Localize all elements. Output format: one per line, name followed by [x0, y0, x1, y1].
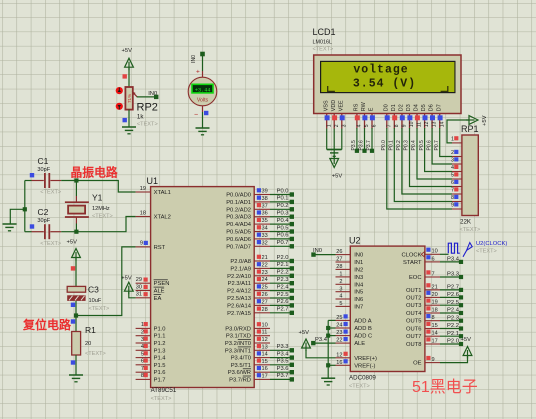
svg-text:4: 4	[141, 344, 144, 350]
wire net P2.1	[270, 262, 294, 270]
svg-text:VSS: VSS	[323, 100, 329, 111]
potentiometer RP2 body	[125, 87, 132, 110]
wire C1 left to common	[25, 180, 32, 182]
svg-text:+5V: +5V	[461, 337, 472, 343]
svg-text:P0.2: P0.2	[277, 203, 289, 209]
wire VSS-VEE join	[327, 149, 342, 151]
U2 pin 18 OUT4	[406, 306, 440, 317]
U1 pin 28 P2.7/A15	[227, 307, 270, 317]
svg-text:−: −	[194, 112, 198, 119]
RP2 wiper arrow	[132, 91, 136, 95]
U1 pin 14 P3.4/T0	[231, 351, 270, 361]
power +5V terminal RP1 (right arrow)	[466, 115, 488, 126]
U2 pin 2 IN4	[336, 279, 364, 288]
svg-text:5: 5	[451, 173, 454, 179]
LCD pin 3 VEE	[338, 100, 347, 128]
svg-text:IN7: IN7	[354, 304, 363, 310]
power +5V terminal VREF+	[299, 330, 311, 351]
svg-text:P2.1: P2.1	[277, 262, 289, 268]
svg-text:25: 25	[336, 315, 342, 321]
svg-text:OUT5: OUT5	[406, 319, 421, 325]
LCD pin 11 D4	[414, 104, 423, 128]
svg-text:8: 8	[432, 315, 435, 321]
svg-text:OUT3: OUT3	[406, 303, 421, 309]
U1 pin 34 P0.5/AD5	[226, 225, 270, 235]
RP1 pin 8	[451, 195, 462, 202]
svg-text:14: 14	[439, 121, 445, 127]
U1 pin 9 RST	[136, 241, 166, 251]
svg-text:P0.4: P0.4	[411, 140, 417, 151]
U2 pin 8 OUT5	[406, 314, 440, 325]
svg-text:3: 3	[341, 124, 347, 127]
svg-text:23: 23	[262, 270, 268, 276]
U2 pin 4 IN6	[336, 294, 364, 303]
svg-text:3: 3	[339, 286, 342, 292]
wire U2 OUT6 to net P2.2	[440, 323, 463, 331]
svg-text:26: 26	[262, 292, 268, 298]
svg-text:P0.1: P0.1	[389, 140, 395, 151]
wire LCD D1 net P0.1 to RP1 pin 8	[389, 128, 453, 202]
wire voltmeter top	[202, 56, 204, 71]
wire net P2.6	[270, 299, 294, 307]
wire U2 OUT7 to net P2.1	[440, 331, 463, 339]
U1 pin 15 P3.5/T1	[231, 359, 270, 369]
wire net P2.2	[270, 270, 294, 278]
svg-text:P0.1: P0.1	[277, 196, 289, 202]
svg-text:P2.6/A14: P2.6/A14	[227, 303, 252, 309]
svg-text:VDD: VDD	[331, 100, 337, 111]
U1 pin 23 P2.2/A10	[227, 270, 270, 280]
U2 pin 23 ADD C	[336, 330, 373, 340]
svg-text:P3.4: P3.4	[447, 256, 460, 262]
svg-text:21: 21	[432, 284, 438, 290]
power +5V terminal LCD (down arrow)	[330, 156, 343, 180]
svg-text:P2.1: P2.1	[447, 331, 459, 337]
voltmeter negative pin	[194, 106, 203, 119]
wire net P0.3	[270, 211, 294, 219]
voltmeter probe node IN0	[191, 52, 205, 63]
wire ADD C stub	[328, 335, 335, 337]
wire LCD D5 net P0.5 to RP1 pin 4	[419, 128, 452, 172]
svg-text:OUT4: OUT4	[406, 311, 422, 317]
svg-text:RW: RW	[361, 101, 367, 111]
svg-text:9: 9	[432, 357, 435, 363]
RP1 pin 9	[451, 202, 462, 209]
LCD pin 6 E	[369, 107, 378, 128]
U2 pin 21 OUT1	[406, 283, 440, 294]
svg-text:2: 2	[334, 124, 340, 127]
svg-text:OUT2: OUT2	[406, 295, 421, 301]
U2 pin 25 ADD A	[336, 314, 372, 324]
svg-text:U2: U2	[349, 236, 361, 246]
svg-text:11: 11	[262, 330, 268, 336]
wire R1 to ground	[75, 355, 77, 375]
LCD pin 4 RS	[354, 103, 363, 128]
U2 pin 16 VREF(-)	[336, 359, 376, 369]
svg-text:P1.1: P1.1	[154, 334, 166, 340]
svg-text:10: 10	[262, 322, 268, 328]
U2 part number label	[349, 375, 376, 390]
svg-text:15: 15	[262, 359, 268, 365]
svg-text:IN0: IN0	[191, 55, 197, 63]
svg-text:+5V: +5V	[299, 330, 310, 336]
svg-text:U2(CLOCK): U2(CLOCK)	[476, 241, 507, 247]
svg-text:P1.5: P1.5	[154, 363, 166, 369]
svg-text:ADD B: ADD B	[354, 326, 372, 332]
svg-text:P0.2/AD2: P0.2/AD2	[226, 207, 251, 213]
svg-text:P2.4: P2.4	[277, 284, 290, 290]
svg-text:P2.2: P2.2	[277, 270, 289, 276]
svg-text:Volts: Volts	[197, 98, 209, 104]
svg-text:VREF(+): VREF(+)	[354, 356, 377, 362]
svg-text:12MHz: 12MHz	[92, 206, 110, 212]
wire net P0.1	[270, 196, 294, 204]
U2 pin 5 IN7	[336, 301, 364, 310]
svg-text:P0.5: P0.5	[277, 225, 289, 231]
svg-text:<TEXT>: <TEXT>	[85, 351, 106, 357]
svg-text:IN3: IN3	[354, 275, 363, 281]
svg-text:P0.6: P0.6	[277, 233, 289, 239]
svg-text:6: 6	[141, 359, 144, 365]
U2 pin 15 OUT6	[406, 322, 440, 333]
svg-text:IN2: IN2	[354, 267, 363, 273]
svg-text:13: 13	[262, 344, 268, 350]
voltmeter positive pin	[196, 69, 203, 78]
svg-text:3: 3	[451, 158, 454, 164]
svg-text:1: 1	[141, 322, 144, 328]
svg-text:29: 29	[136, 277, 142, 283]
svg-text:8: 8	[141, 373, 144, 379]
svg-text:P2.7: P2.7	[277, 307, 289, 313]
svg-text:18: 18	[432, 307, 438, 313]
svg-text:P0.6: P0.6	[426, 140, 432, 151]
svg-text:<TEXT>: <TEXT>	[476, 249, 497, 255]
svg-text:P2.6: P2.6	[277, 299, 289, 305]
U1 pin 27 P2.6/A14	[227, 299, 270, 309]
svg-text:IN4: IN4	[354, 282, 364, 288]
U1 pin 2 P1.1	[136, 329, 166, 339]
svg-text:D4: D4	[414, 104, 420, 111]
svg-text:5: 5	[141, 351, 144, 357]
label RP2	[137, 101, 158, 127]
svg-text:P3.1/TXD: P3.1/TXD	[226, 334, 251, 340]
svg-text:+5V: +5V	[332, 174, 343, 180]
svg-text:1: 1	[451, 137, 454, 143]
svg-text:22: 22	[336, 338, 342, 344]
svg-text:P2.5: P2.5	[277, 292, 289, 298]
wire XTAL1 net	[61, 181, 135, 193]
junction capacitor common	[23, 207, 27, 211]
svg-text:ADC0809: ADC0809	[349, 375, 376, 382]
svg-text:12: 12	[336, 352, 342, 358]
RP1 value labels	[460, 219, 481, 234]
svg-text:39: 39	[262, 189, 268, 195]
svg-text:+5V: +5V	[121, 276, 132, 282]
RP1 pin 4	[451, 165, 462, 172]
svg-text:IN0: IN0	[354, 253, 363, 259]
U1 pin 31 EA	[136, 292, 162, 302]
logic state square below reset node	[71, 319, 75, 323]
svg-text:34: 34	[262, 226, 268, 232]
wire LCD D2 net P0.2 to RP1 pin 7	[396, 128, 452, 194]
ground LCD	[327, 149, 341, 151]
power +5V terminal reset	[67, 240, 81, 261]
wire net P2.4	[270, 284, 294, 292]
svg-text:C1: C1	[38, 156, 49, 166]
U1 pin 5 P1.4	[136, 351, 167, 361]
U1 pin 18 XTAL2	[136, 210, 171, 220]
wire LCD D0 net P0.0 to RP1 pin 9	[381, 128, 452, 209]
U2 pin 10 CLOCK	[402, 248, 440, 259]
junction ADD B	[326, 326, 330, 330]
resistor pack RP1 body	[462, 135, 478, 216]
RP1 pin 3	[451, 157, 462, 164]
svg-text:17: 17	[262, 373, 268, 379]
wire net P3.4	[270, 351, 294, 359]
svg-text:P0.3: P0.3	[404, 140, 410, 151]
RP2 increment button	[116, 87, 123, 94]
U1 pin 19 XTAL1	[136, 186, 171, 196]
svg-text:30pF: 30pF	[37, 218, 50, 224]
svg-text:R1: R1	[85, 325, 96, 335]
wire U2 OUT2 to net P2.6	[440, 292, 463, 300]
U1 pin 26 P2.5/A13	[227, 292, 270, 302]
svg-text:voltage: voltage	[353, 63, 408, 76]
svg-text:<TEXT>: <TEXT>	[151, 396, 172, 402]
U2 pin 1 IN3	[336, 272, 364, 281]
svg-text:18: 18	[140, 210, 146, 216]
power +5V terminal for RP2	[122, 48, 134, 70]
wire crystal top	[75, 181, 77, 197]
U2 pin 26 IN0	[336, 249, 364, 258]
svg-text:<TEXT>: <TEXT>	[89, 306, 110, 312]
svg-text:P3.4: P3.4	[277, 351, 290, 357]
wire reset node to RST pin	[76, 247, 136, 316]
svg-text:38: 38	[262, 196, 268, 202]
svg-text:3: 3	[141, 337, 144, 343]
wire ALE to net P3.4	[311, 337, 335, 345]
svg-text:31: 31	[136, 292, 142, 298]
svg-text:28: 28	[262, 307, 268, 313]
U1 pin 6 P1.5	[136, 358, 166, 368]
svg-text:30: 30	[136, 284, 142, 290]
U1 pin 10 P3.0/RXD	[225, 322, 270, 332]
wire U2 OUT4 to net P2.4	[440, 308, 463, 316]
svg-text:P2.5/A13: P2.5/A13	[227, 296, 251, 302]
U1 pin 1 P1.0	[136, 322, 166, 332]
wire net P0.2	[270, 203, 294, 211]
wire +5V to RP2 top	[128, 68, 130, 88]
svg-text:10: 10	[432, 249, 438, 255]
svg-text:START: START	[403, 260, 422, 266]
svg-text:LCD1: LCD1	[313, 27, 336, 37]
svg-text:P0.3/AD3: P0.3/AD3	[226, 215, 251, 221]
junction reset node	[74, 313, 78, 317]
svg-text:P0.4: P0.4	[277, 218, 290, 224]
svg-text:+5V: +5V	[122, 48, 133, 54]
wire net P3.6	[270, 366, 294, 374]
logic state square on RP2 bottom wire	[123, 118, 127, 122]
svg-text:P2.1/A9: P2.1/A9	[230, 266, 251, 272]
svg-text:P0.5/AD5: P0.5/AD5	[226, 230, 251, 236]
svg-text:P2.7/A15: P2.7/A15	[227, 311, 251, 317]
svg-text:12: 12	[262, 337, 268, 343]
svg-text:P3.4/T0: P3.4/T0	[231, 356, 251, 362]
svg-text:PSEN: PSEN	[154, 281, 170, 287]
U1 pin 21 P2.0/A8	[230, 255, 270, 265]
wire U2 START to net P3.4	[440, 256, 463, 264]
svg-text:P0.5: P0.5	[419, 140, 425, 151]
svg-text:<TEXT>: <TEXT>	[460, 227, 481, 233]
U2 pin 24 ADD B	[336, 322, 373, 332]
capacitor C1	[32, 156, 62, 196]
wire net P0.0	[270, 188, 294, 196]
crystal Y1	[65, 193, 113, 224]
svg-text:OE: OE	[413, 361, 422, 367]
svg-text:2: 2	[141, 330, 144, 336]
wire LCD D7 net P0.7 to RP1 pin 2	[434, 128, 452, 157]
svg-text:P2.0: P2.0	[277, 255, 289, 261]
svg-text:11: 11	[417, 122, 423, 127]
LCD pin 13 D6	[429, 104, 438, 128]
svg-text:P0.2: P0.2	[396, 140, 402, 151]
U1 pin 8 P1.7	[136, 373, 166, 383]
logic state square on reset top wire	[71, 266, 75, 270]
svg-text:3.54 (V): 3.54 (V)	[353, 77, 416, 90]
svg-text:27: 27	[262, 299, 268, 305]
svg-text:ALE: ALE	[354, 341, 365, 347]
svg-text:XTAL2: XTAL2	[154, 215, 171, 221]
LCD pin 9 D2	[399, 104, 408, 128]
logic state square on voltmeter ground wire	[204, 111, 208, 115]
svg-text:27: 27	[336, 257, 342, 263]
svg-text:9: 9	[451, 203, 454, 209]
svg-text:P0.0: P0.0	[277, 188, 289, 194]
svg-text:P0.3: P0.3	[277, 211, 289, 217]
wire net P2.7	[270, 307, 294, 315]
svg-text:复位电路: 复位电路	[22, 317, 72, 332]
svg-text:RS: RS	[354, 103, 360, 111]
svg-text:IN0: IN0	[313, 248, 322, 254]
U2 pin 9 OE	[413, 356, 440, 367]
wire LCD D3 net P0.3 to RP1 pin 6	[404, 128, 452, 187]
wire LCD VSS to ground	[326, 129, 328, 150]
wire LCD RW to net P3.6	[359, 128, 367, 153]
svg-text:OUT6: OUT6	[406, 327, 421, 333]
svg-text:D5: D5	[421, 104, 427, 111]
svg-text:8: 8	[451, 195, 454, 201]
svg-text:P3.6: P3.6	[277, 366, 289, 372]
svg-text:<TEXT>: <TEXT>	[92, 214, 113, 220]
svg-text:<TEXT>: <TEXT>	[40, 241, 61, 247]
U1 pin 16 P3.6/WR	[228, 366, 270, 376]
wire LCD VDD to +5V	[333, 129, 335, 159]
wire ADD B stub	[328, 327, 335, 329]
junction VREF(-)	[326, 363, 330, 367]
svg-text:7: 7	[432, 271, 435, 277]
svg-text:CLOCK: CLOCK	[402, 252, 422, 258]
ground reset circuit	[69, 374, 83, 376]
svg-text:<TEXT>: <TEXT>	[349, 384, 370, 390]
svg-text:7: 7	[451, 188, 454, 194]
logic state square on C2 wire	[30, 224, 34, 228]
ground crystal circuit	[3, 223, 17, 225]
svg-text:E: E	[369, 107, 375, 111]
svg-text:P2.3: P2.3	[447, 315, 459, 321]
U1 pin 29 PSEN	[136, 277, 170, 287]
logic state square on reset mid wire	[71, 303, 75, 307]
svg-text:37: 37	[262, 203, 268, 209]
svg-text:12: 12	[424, 121, 430, 127]
node IN0 at RP2 wiper	[148, 91, 158, 99]
wire net P3.5	[270, 359, 294, 367]
U2 pin 12 VREF(+)	[336, 352, 377, 362]
svg-text:4: 4	[451, 165, 454, 171]
svg-text:P3.3/INT1: P3.3/INT1	[225, 348, 251, 354]
U2 pin 22 ALE	[336, 337, 366, 347]
svg-text:P0.1/AD1: P0.1/AD1	[226, 200, 251, 206]
svg-text:51黑电子: 51黑电子	[412, 378, 478, 396]
svg-text:6: 6	[432, 256, 435, 262]
svg-text:D7: D7	[436, 104, 442, 111]
wire U2 IN0 input net	[311, 248, 335, 257]
svg-text:P3.3: P3.3	[447, 272, 459, 278]
svg-text:VREF(-): VREF(-)	[354, 363, 375, 369]
power +5V terminal at OE	[461, 337, 472, 359]
svg-text:ALE: ALE	[154, 289, 165, 295]
svg-text:P1.6: P1.6	[154, 370, 166, 376]
U1 pin 38 P0.1/AD1	[226, 196, 270, 206]
U2 pin 7 EOC	[409, 270, 440, 281]
wire net P0.7	[270, 240, 294, 248]
svg-text:P3.7/RD: P3.7/RD	[229, 377, 251, 383]
wire C2 left to common	[25, 231, 32, 233]
svg-text:P3.2/INT0: P3.2/INT0	[225, 341, 251, 347]
LCD LCD1 labels	[313, 27, 336, 53]
svg-text:P3.5/T1: P3.5/T1	[231, 363, 251, 369]
svg-text:+3.44: +3.44	[195, 87, 211, 93]
wire crystal bottom	[75, 224, 77, 232]
svg-text:20: 20	[432, 292, 438, 298]
RP1 pin 6	[451, 180, 462, 187]
svg-text:4: 4	[339, 294, 342, 300]
svg-text:P2.5: P2.5	[447, 300, 459, 306]
U2 pin 6 START	[403, 255, 440, 266]
svg-text:16: 16	[336, 360, 342, 366]
svg-text:33: 33	[262, 233, 268, 239]
svg-text:P2.7: P2.7	[447, 285, 459, 291]
ground below voltmeter	[196, 127, 210, 129]
svg-text:20: 20	[85, 341, 91, 347]
wire U2 CLOCK net	[440, 253, 449, 255]
svg-text:P0.7: P0.7	[277, 240, 289, 246]
svg-text:P2.4/A12: P2.4/A12	[227, 289, 251, 295]
svg-text:EA: EA	[154, 296, 162, 302]
svg-text:36: 36	[262, 211, 268, 217]
svg-text:2: 2	[339, 279, 342, 285]
U1 pin 35 P0.4/AD4	[226, 218, 270, 228]
svg-text:+: +	[196, 69, 200, 76]
svg-text:28: 28	[336, 264, 342, 270]
wire U2 OE to +5V	[440, 356, 468, 363]
U2 pin 20 OUT2	[406, 291, 440, 302]
svg-text:P3.4: P3.4	[315, 337, 328, 343]
svg-text:<TEXT>: <TEXT>	[40, 190, 61, 196]
U1 pin 37 P0.2/AD2	[226, 203, 270, 213]
svg-text:4: 4	[357, 124, 363, 127]
capacitor C3 electrolytic	[67, 285, 109, 313]
U1 pin 3 P1.2	[136, 337, 166, 347]
